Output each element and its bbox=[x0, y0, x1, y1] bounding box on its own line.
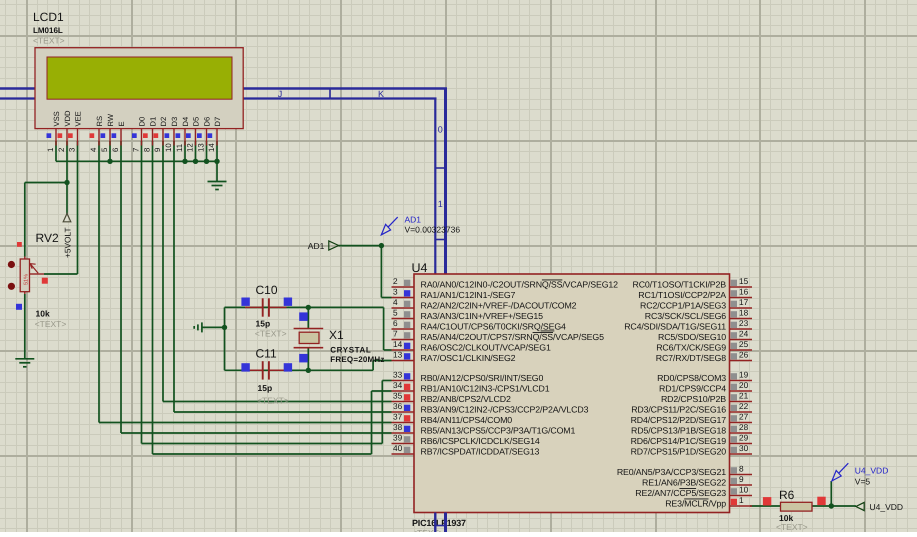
svg-text:15p: 15p bbox=[256, 319, 271, 329]
svg-text:13: 13 bbox=[196, 143, 205, 152]
svg-text:40: 40 bbox=[393, 443, 403, 453]
svg-text:RB7/ICSPDAT/ICDDAT/SEG13: RB7/ICSPDAT/ICDDAT/SEG13 bbox=[421, 447, 540, 457]
svg-text:15p: 15p bbox=[258, 383, 273, 393]
svg-text:37: 37 bbox=[393, 412, 403, 422]
svg-text:RB4/AN11/CPS4/COM0: RB4/AN11/CPS4/COM0 bbox=[421, 415, 513, 425]
svg-text:2: 2 bbox=[393, 276, 398, 286]
svg-text:RC1/T1OSI/CCP2/P2A: RC1/T1OSI/CCP2/P2A bbox=[638, 290, 726, 300]
svg-text:LCD1: LCD1 bbox=[33, 10, 64, 24]
svg-text:RC3/SCK/SCL/SEG6: RC3/SCK/SCL/SEG6 bbox=[645, 311, 726, 321]
svg-text:U4_VDD: U4_VDD bbox=[855, 466, 889, 476]
svg-text:RV2: RV2 bbox=[36, 231, 59, 245]
svg-text:7: 7 bbox=[131, 148, 140, 152]
svg-text:LM016L: LM016L bbox=[33, 26, 63, 35]
svg-text:C11: C11 bbox=[256, 347, 277, 361]
svg-text:2: 2 bbox=[57, 148, 66, 152]
svg-text:E: E bbox=[117, 121, 126, 126]
svg-text:6: 6 bbox=[111, 148, 120, 152]
svg-text:X1: X1 bbox=[329, 328, 344, 342]
svg-text:1: 1 bbox=[438, 199, 443, 209]
svg-text:18: 18 bbox=[739, 308, 749, 318]
svg-text:7: 7 bbox=[393, 329, 398, 339]
svg-text:R6: R6 bbox=[779, 488, 795, 502]
svg-text:39: 39 bbox=[393, 433, 403, 443]
svg-text:RA1/AN1/C12IN1-/SEG7: RA1/AN1/C12IN1-/SEG7 bbox=[421, 290, 516, 300]
svg-text:<TEXT>: <TEXT> bbox=[257, 396, 289, 406]
svg-text:RA3/AN3/C1IN+/VREF+/SEG15: RA3/AN3/C1IN+/VREF+/SEG15 bbox=[421, 311, 544, 321]
svg-text:<TEXT>: <TEXT> bbox=[255, 328, 287, 338]
svg-text:D5: D5 bbox=[192, 117, 201, 127]
svg-text:VDD: VDD bbox=[63, 110, 72, 127]
svg-text:D3: D3 bbox=[170, 117, 179, 127]
svg-text:3: 3 bbox=[67, 148, 76, 152]
svg-text:RB2/AN8/CPS2/VLCD2: RB2/AN8/CPS2/VLCD2 bbox=[421, 394, 511, 404]
svg-text:RB5/AN13/CPS5/CCP3/P3A/T1G/COM: RB5/AN13/CPS5/CCP3/P3A/T1G/COM1 bbox=[421, 426, 576, 436]
svg-text:<TEXT>: <TEXT> bbox=[776, 522, 808, 532]
svg-text:10: 10 bbox=[164, 143, 173, 152]
svg-text:RE3/MCLR/Vpp: RE3/MCLR/Vpp bbox=[665, 499, 726, 509]
svg-text:RW: RW bbox=[106, 113, 115, 126]
svg-text:RD2/CPS10/P2B: RD2/CPS10/P2B bbox=[661, 394, 726, 404]
svg-text:6: 6 bbox=[393, 318, 398, 328]
svg-text:24: 24 bbox=[739, 329, 749, 339]
svg-text:23: 23 bbox=[739, 318, 749, 328]
svg-text:D0: D0 bbox=[138, 117, 147, 127]
svg-text:D4: D4 bbox=[181, 117, 190, 127]
svg-text:RC2/CCP1/P1A/SEG3: RC2/CCP1/P1A/SEG3 bbox=[640, 301, 726, 311]
svg-text:17: 17 bbox=[739, 297, 749, 307]
svg-text:VEE: VEE bbox=[74, 111, 83, 126]
svg-text:34: 34 bbox=[393, 380, 403, 390]
svg-text:C10: C10 bbox=[256, 283, 278, 297]
svg-text:RD4/CPS12/P2D/SEG17: RD4/CPS12/P2D/SEG17 bbox=[631, 415, 727, 425]
svg-text:+5VOLT: +5VOLT bbox=[62, 227, 72, 258]
svg-text:RB3/AN9/C12IN2-/CPS3/CCP2/P2A/: RB3/AN9/C12IN2-/CPS3/CCP2/P2A/VLCD3 bbox=[421, 405, 589, 415]
svg-text:RD0/CPS8/COM3: RD0/CPS8/COM3 bbox=[657, 373, 726, 383]
svg-text:AD1: AD1 bbox=[405, 215, 422, 225]
svg-text:26: 26 bbox=[739, 350, 749, 360]
svg-text:16: 16 bbox=[739, 287, 749, 297]
svg-text:<TEXT>: <TEXT> bbox=[412, 528, 444, 532]
svg-text:RA4/C1OUT/CPS6/T0CKI/SRQ/SEG4: RA4/C1OUT/CPS6/T0CKI/SRQ/SEG4 bbox=[421, 322, 567, 332]
svg-text:28: 28 bbox=[739, 422, 749, 432]
svg-text:RC0/T1OSO/T1CKI/P2B: RC0/T1OSO/T1CKI/P2B bbox=[633, 280, 727, 290]
svg-text:19: 19 bbox=[739, 370, 749, 380]
svg-text:10k: 10k bbox=[36, 309, 50, 319]
svg-text:9: 9 bbox=[153, 148, 162, 152]
svg-text:35: 35 bbox=[393, 391, 403, 401]
svg-text:D7: D7 bbox=[213, 117, 222, 127]
svg-text:V=5: V=5 bbox=[855, 476, 871, 486]
svg-text:12: 12 bbox=[185, 143, 194, 152]
svg-text:AD1: AD1 bbox=[308, 241, 325, 251]
svg-text:D6: D6 bbox=[203, 117, 212, 127]
svg-text:K: K bbox=[378, 89, 384, 99]
svg-text:RE1/AN6/P3B/SEG22: RE1/AN6/P3B/SEG22 bbox=[642, 478, 726, 488]
svg-text:8: 8 bbox=[142, 148, 151, 152]
svg-text:8: 8 bbox=[739, 464, 744, 474]
svg-text:RD1/CPS9/CCP4: RD1/CPS9/CCP4 bbox=[659, 384, 726, 394]
svg-text:RE0/AN5/P3A/CCP3/SEG21: RE0/AN5/P3A/CCP3/SEG21 bbox=[617, 467, 726, 477]
svg-text:15: 15 bbox=[739, 276, 749, 286]
svg-text:<TEXT>: <TEXT> bbox=[33, 36, 65, 46]
svg-text:14: 14 bbox=[393, 339, 403, 349]
svg-text:9: 9 bbox=[739, 474, 744, 484]
svg-text:RB6/ICSPCLK/ICDCLK/SEG14: RB6/ICSPCLK/ICDCLK/SEG14 bbox=[421, 436, 540, 446]
svg-text:10: 10 bbox=[739, 485, 749, 495]
svg-text:22: 22 bbox=[739, 401, 749, 411]
svg-text:RC7/RX/DT/SEG8: RC7/RX/DT/SEG8 bbox=[656, 353, 727, 363]
svg-text:5: 5 bbox=[100, 147, 109, 152]
svg-text:4: 4 bbox=[393, 297, 398, 307]
svg-text:13: 13 bbox=[393, 350, 403, 360]
svg-text:RS: RS bbox=[95, 116, 104, 127]
svg-text:RB0/AN12/CPS0/SRI/INT/SEG0: RB0/AN12/CPS0/SRI/INT/SEG0 bbox=[421, 373, 544, 383]
svg-text:30: 30 bbox=[739, 443, 749, 453]
svg-text:U4: U4 bbox=[412, 261, 428, 275]
svg-text:RA6/OSC2/CLKOUT/VCAP/SEG1: RA6/OSC2/CLKOUT/VCAP/SEG1 bbox=[421, 343, 551, 353]
svg-text:RD7/CPS15/P1D/SEG20: RD7/CPS15/P1D/SEG20 bbox=[631, 447, 727, 457]
svg-text:RA5/AN4/C2OUT/CPS7/SRNQ/SS/VCA: RA5/AN4/C2OUT/CPS7/SRNQ/SS/VCAP/SEG5 bbox=[421, 332, 605, 342]
svg-text:D1: D1 bbox=[149, 117, 158, 127]
svg-text:RC6/TX/CK/SEG9: RC6/TX/CK/SEG9 bbox=[656, 343, 726, 353]
svg-text:20: 20 bbox=[739, 380, 749, 390]
svg-text:1: 1 bbox=[739, 495, 744, 505]
svg-text:RD6/CPS14/P1C/SEG19: RD6/CPS14/P1C/SEG19 bbox=[631, 436, 727, 446]
svg-text:29: 29 bbox=[739, 433, 749, 443]
svg-text:<TEXT>: <TEXT> bbox=[35, 319, 67, 329]
svg-text:11: 11 bbox=[175, 144, 184, 152]
svg-text:14: 14 bbox=[207, 143, 216, 152]
svg-text:3: 3 bbox=[393, 287, 398, 297]
svg-text:RC4/SDI/SDA/T1G/SEG11: RC4/SDI/SDA/T1G/SEG11 bbox=[624, 322, 726, 332]
svg-text:RA7/OSC1/CLKIN/SEG2: RA7/OSC1/CLKIN/SEG2 bbox=[421, 353, 516, 363]
svg-text:RD5/CPS13/P1B/SEG18: RD5/CPS13/P1B/SEG18 bbox=[631, 426, 726, 436]
svg-text:1: 1 bbox=[46, 148, 55, 152]
svg-text:21: 21 bbox=[739, 391, 749, 401]
svg-text:D2: D2 bbox=[159, 117, 168, 127]
svg-text:V=0.00323736: V=0.00323736 bbox=[405, 225, 461, 235]
svg-text:RC5/SDO/SEG10: RC5/SDO/SEG10 bbox=[658, 332, 726, 342]
svg-text:51%: 51% bbox=[24, 274, 30, 285]
svg-text:RB1/AN10/C12IN3-/CPS1/VLCD1: RB1/AN10/C12IN3-/CPS1/VLCD1 bbox=[421, 384, 550, 394]
svg-text:RE2/AN7/CCP5/SEG23: RE2/AN7/CCP5/SEG23 bbox=[635, 488, 726, 498]
svg-text:FREQ=20MHz: FREQ=20MHz bbox=[330, 355, 384, 364]
svg-text:RA0/AN0/C12IN0-/C2OUT/SRNQ/SS/: RA0/AN0/C12IN0-/C2OUT/SRNQ/SS/VCAP/SEG12 bbox=[421, 280, 619, 290]
svg-text:5: 5 bbox=[393, 308, 398, 318]
svg-text:27: 27 bbox=[739, 412, 749, 422]
svg-text:U4_VDD: U4_VDD bbox=[870, 502, 904, 512]
svg-text:RD3/CPS11/P2C/SEG16: RD3/CPS11/P2C/SEG16 bbox=[631, 405, 726, 415]
svg-text:4: 4 bbox=[89, 147, 98, 152]
svg-text:RA2/AN2/C2IN+/VREF-/DACOUT/COM: RA2/AN2/C2IN+/VREF-/DACOUT/COM2 bbox=[421, 301, 577, 311]
svg-text:38: 38 bbox=[393, 422, 403, 432]
svg-text:0: 0 bbox=[438, 125, 443, 135]
svg-text:VSS: VSS bbox=[52, 111, 61, 126]
svg-text:J: J bbox=[278, 89, 283, 99]
svg-text:CRYSTAL: CRYSTAL bbox=[330, 345, 371, 354]
svg-text:25: 25 bbox=[739, 339, 749, 349]
svg-text:33: 33 bbox=[393, 370, 403, 380]
svg-text:36: 36 bbox=[393, 401, 403, 411]
